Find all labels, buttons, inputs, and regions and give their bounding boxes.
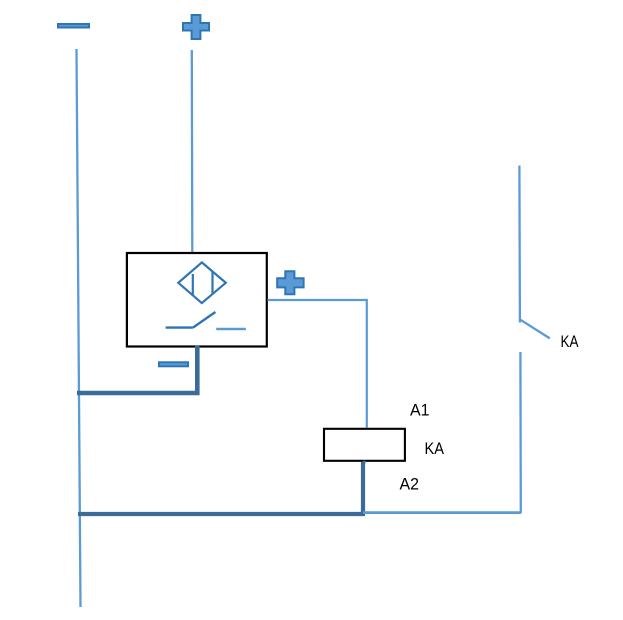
wire positive feed [191, 50, 194, 256]
negative output marker [159, 362, 188, 366]
relay coil KA [324, 429, 405, 461]
diamond inner right bar [211, 272, 213, 294]
positive supply terminal [183, 15, 209, 39]
positive output marker [277, 271, 303, 294]
wire coil bottom to rail [78, 462, 363, 515]
switch contact right lead [216, 328, 246, 331]
proximity sensor box [127, 253, 267, 347]
svg-text:A2: A2 [400, 475, 420, 494]
svg-text:KA: KA [561, 332, 580, 351]
wire sensor output to coil [268, 300, 367, 428]
wire bottom return light [363, 511, 521, 514]
wire contact lower lead [519, 352, 522, 513]
switch contact left lead [166, 326, 193, 328]
negative supply terminal [58, 24, 89, 28]
switch contact lever [193, 312, 216, 328]
wire sensor negative to rail [77, 345, 197, 393]
wire coil stub [363, 461, 365, 465]
svg-text:KA: KA [425, 439, 445, 458]
relay contact KA lever [521, 320, 550, 339]
wire negative rail [77, 49, 81, 607]
diamond inner left bar [192, 274, 194, 296]
svg-text:A1: A1 [410, 401, 430, 420]
wire contact upper lead [518, 166, 521, 323]
sensor symbol diamond [178, 262, 226, 303]
